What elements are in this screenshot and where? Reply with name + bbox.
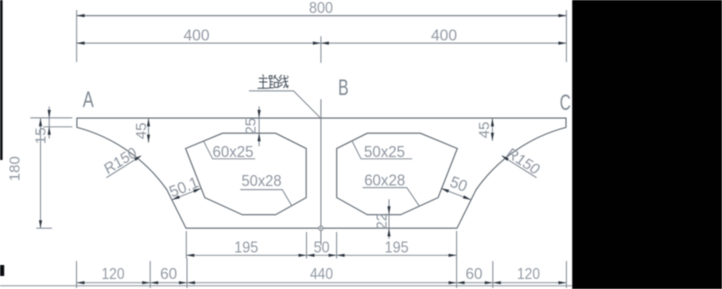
arrows 25 outside [258,110,261,118]
ext line top center [320,36,322,63]
svg-text:400: 400 [431,27,457,44]
dim line 180 [40,118,42,228]
svg-text:60: 60 [466,266,483,283]
svg-text:50x25: 50x25 [364,144,405,161]
arrows 50.1 [172,195,180,199]
svg-text:45: 45 [133,123,150,140]
svg-text:180: 180 [7,156,24,181]
ext line top left [76,10,78,62]
arrows 50 right web [441,188,449,192]
label leader 50x28 [240,190,292,207]
ext line top right [565,10,567,62]
arrows row1 [186,254,194,257]
arrow R150 right [501,155,509,161]
right cell [337,133,458,215]
ext row2 c [186,258,188,288]
sheet frame line bottom [0,285,572,287]
svg-text:800: 800 [309,0,333,17]
svg-text:195: 195 [234,239,258,256]
ext row1 a [185,231,187,259]
svg-text:120: 120 [517,266,540,283]
dim line 800 [77,15,567,17]
hanzi lu [269,76,272,79]
svg-text:15: 15 [33,127,50,144]
arrows 180 [39,118,42,126]
arrow R150 left [134,155,142,161]
black frame mark bottom-left [0,265,4,276]
arrows 45 left [147,118,150,126]
ext row2 d [456,258,458,288]
dim line 45 left [148,118,150,142]
dim line 400 left [77,42,321,44]
black CAD background panel right [572,0,722,289]
svg-text:45: 45 [476,122,493,139]
ext line 15 top [30,117,72,119]
svg-text:50x28: 50x28 [242,173,282,190]
label leader 50x25 [352,141,412,159]
label leader 60x25 [204,141,256,159]
ext row1 c [336,232,338,259]
label leader 60x28 [363,188,420,207]
ext row2 a [76,261,78,288]
center node dot [320,227,322,229]
dim line 50.1 web left [172,188,201,200]
arrows 400 left [77,42,85,45]
svg-text:22: 22 [374,213,391,230]
arrows 15 outside [48,110,51,118]
dim line 25 center [258,106,260,146]
dim line 50 web right [441,188,471,200]
svg-text:60x28: 60x28 [364,172,405,189]
ext row2 b [149,261,151,288]
svg-text:A: A [83,87,94,112]
leader R150 left [106,156,140,178]
arrows 800 [77,14,85,17]
ext line 180 bottom [36,227,52,229]
black frame strip left [0,0,3,160]
svg-text:195: 195 [385,239,409,256]
dim line 45 right [491,118,493,140]
hanzi zhu [262,75,265,77]
svg-text:B: B [338,75,349,100]
ext row2 f [565,261,567,288]
ext row1 d [456,231,458,259]
dim line bottom row2 [77,282,567,284]
svg-text:60x25: 60x25 [213,144,254,161]
dim line 22 [388,199,390,239]
arrows row2 [77,281,85,284]
arrows 22 outside [387,206,390,214]
svg-text:25: 25 [243,118,260,135]
arrows 400 right [321,42,329,45]
hanzi xian [279,75,281,78]
centerline [320,99,322,245]
dim line 400 right [321,42,567,44]
girder outline [77,118,566,228]
center node marker [319,226,323,230]
ext line 15 bottom [43,126,72,128]
svg-text:440: 440 [310,266,333,283]
ext row2 e [492,261,494,288]
svg-text:50: 50 [314,239,330,256]
leader main-route [249,91,320,117]
svg-text:60: 60 [160,266,177,283]
left cell [186,133,307,215]
arrows 45 right [491,118,494,126]
ext row1 b [306,232,308,259]
svg-text:400: 400 [184,27,210,44]
svg-text:120: 120 [102,266,125,283]
dim line 15 [48,107,50,139]
leader R150 right [502,156,536,178]
svg-text:C: C [560,90,571,115]
dim line bottom row1 [186,254,456,256]
